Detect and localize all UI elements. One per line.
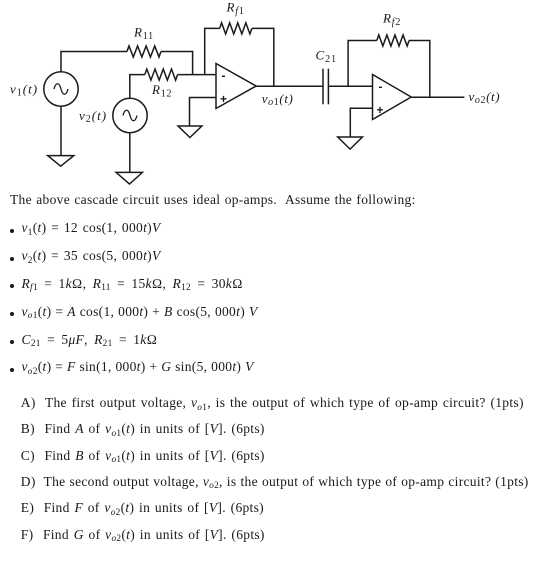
label v2(t): [79, 108, 107, 125]
wire U1 output to C21: [256, 85, 323, 87]
op-amp U1: [216, 64, 256, 109]
wire v2 bottom lead: [129, 132, 131, 172]
resistor Rf1: [220, 23, 252, 34]
svg-text:v1(t): v1(t): [10, 82, 38, 99]
resistor Rf2: [377, 35, 409, 46]
svg-text:R11: R11: [133, 25, 154, 43]
ground: [338, 137, 363, 149]
ground: [116, 172, 142, 184]
svg-text:C21: C21: [316, 48, 338, 66]
label Rf1: [226, 0, 245, 17]
label vo1(t): [262, 91, 294, 108]
svg-text:-: -: [222, 69, 226, 83]
svg-text:Rf2: Rf2: [382, 11, 401, 29]
svg-text:vo1(t): vo1(t): [262, 91, 294, 108]
capacitor C21: [323, 69, 328, 105]
svg-text:vo2(t): vo2(t): [469, 89, 501, 106]
label Rf2: [382, 11, 401, 29]
svg-text:v2(t): v2(t): [79, 108, 107, 125]
source v2: [113, 98, 147, 132]
svg-text:-: -: [379, 80, 383, 94]
svg-text:R12: R12: [151, 82, 172, 100]
wire U1 non-inverting input to ground: [190, 98, 217, 127]
wire C21 to op-amp U2 inverting input: [328, 85, 372, 87]
svg-text:+: +: [377, 103, 384, 117]
wire U2 non-inverting input to ground: [350, 108, 372, 137]
svg-text:+: +: [220, 92, 227, 106]
wire feedback tap U1: [205, 28, 220, 74]
wire v1 bottom lead: [60, 106, 62, 156]
wire v2 top lead: [130, 75, 145, 99]
label vo2(t): [469, 89, 501, 106]
svg-text:Rf1: Rf1: [226, 0, 245, 17]
wire Rf2 to output node vo2: [409, 41, 430, 98]
label C21: [316, 48, 338, 66]
label R12: [151, 82, 172, 100]
resistor R11: [127, 46, 161, 57]
ground: [178, 126, 202, 138]
ground: [48, 156, 74, 167]
label R11: [133, 25, 154, 43]
wire R12 to op-amp U1 inverting input: [178, 74, 216, 76]
source v1: [44, 72, 78, 106]
wire feedback tap U2: [348, 41, 377, 87]
resistor R12: [145, 69, 178, 80]
label v1(t): [10, 82, 38, 99]
wire U2 output: [411, 96, 464, 98]
wire v1 top lead: [61, 52, 127, 73]
wire Rf1 to output node vo1: [252, 28, 274, 86]
wire R11 to inverting node: [161, 52, 193, 75]
op-amp U2: [373, 75, 412, 120]
